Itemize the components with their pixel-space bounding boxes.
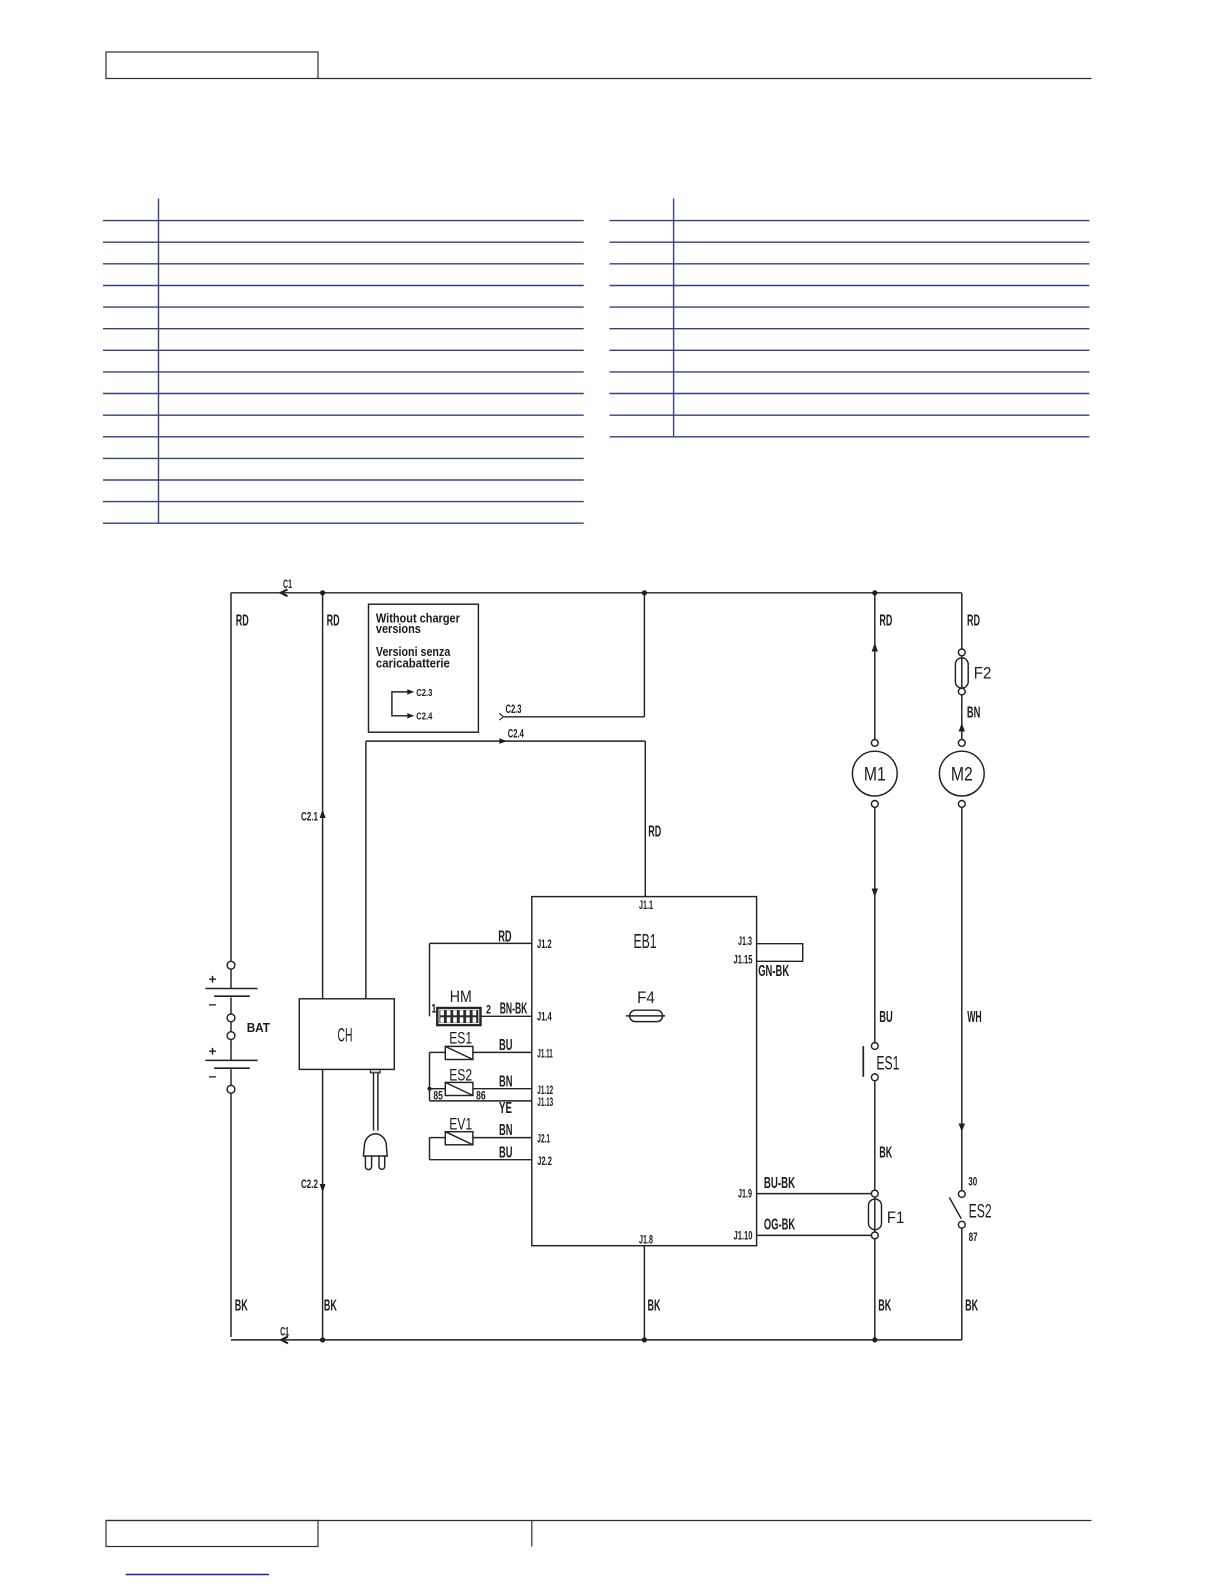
svg-text:C2.3: C2.3 xyxy=(416,687,432,699)
svg-text:M2: M2 xyxy=(951,764,973,785)
note box: Without charger versions xyxy=(369,604,479,732)
svg-text:C2.4: C2.4 xyxy=(508,726,524,740)
svg-text:BU: BU xyxy=(499,1144,513,1161)
node C1 (bottom) xyxy=(280,1324,289,1343)
parts table left xyxy=(103,199,584,524)
svg-text:F4: F4 xyxy=(637,989,655,1007)
wire: F1 to ground bus (BK) xyxy=(875,1239,892,1340)
wire: J1.3/J1.15 jumper loop (GN-BK) xyxy=(757,944,803,980)
parts table right xyxy=(610,199,1090,437)
wire: ES1 to F1 (BK) xyxy=(875,1081,893,1191)
wire: J1.10 OG-BK to F1 xyxy=(757,1217,872,1236)
wire: M1 supply RD xyxy=(872,593,893,740)
wire: M2 supply RD xyxy=(962,593,980,649)
header rule xyxy=(318,78,1092,80)
svg-text:1: 1 xyxy=(431,1002,436,1016)
svg-text:HM: HM xyxy=(450,988,472,1006)
svg-text:BK: BK xyxy=(879,1145,892,1162)
junction: motor M1 branch / top bus xyxy=(872,590,877,595)
svg-text:C2.1: C2.1 xyxy=(301,809,318,823)
wire: ES2 coil to J1.12 (BN) xyxy=(473,1073,532,1090)
svg-text:M1: M1 xyxy=(864,764,886,785)
svg-text:OG-BK: OG-BK xyxy=(764,1217,796,1234)
junction: charger feed / top bus xyxy=(320,590,325,595)
svg-text:J1.1: J1.1 xyxy=(639,900,653,912)
svg-text:J1.8: J1.8 xyxy=(639,1234,653,1246)
wire: HM pin 2 to J1.4 (BN-BK) xyxy=(481,1000,532,1017)
wire: EV1 to J2.1 (BN) xyxy=(473,1122,532,1139)
svg-text:–: – xyxy=(209,997,217,1012)
wire: bottom ground bus xyxy=(231,1339,962,1341)
svg-text:versions: versions xyxy=(376,621,421,636)
svg-text:BU: BU xyxy=(879,1009,893,1026)
svg-text:caricabatterie: caricabatterie xyxy=(376,655,450,670)
wire: F2 to M2 (BN) xyxy=(959,695,981,740)
svg-text:J2.1: J2.1 xyxy=(537,1133,550,1145)
svg-text:WH: WH xyxy=(967,1009,982,1026)
svg-text:J1.11: J1.11 xyxy=(537,1049,553,1061)
svg-text:BN-BK: BN-BK xyxy=(500,1000,528,1017)
wire: top supply bus xyxy=(231,592,962,594)
node C1 (top) xyxy=(281,577,292,596)
fuse F1 xyxy=(869,1190,905,1239)
svg-text:GN-BK: GN-BK xyxy=(758,963,789,980)
svg-text:BK: BK xyxy=(324,1297,337,1314)
relay coil ES2 xyxy=(433,1066,485,1102)
svg-text:J1.4: J1.4 xyxy=(537,1012,552,1024)
svg-text:BN: BN xyxy=(967,705,981,722)
svg-text:ES2: ES2 xyxy=(449,1066,472,1084)
controller EB1 xyxy=(532,897,757,1247)
svg-text:J1.13: J1.13 xyxy=(537,1097,553,1109)
motor M2 xyxy=(939,740,984,808)
junction: EB1 return / ground bus xyxy=(642,1337,647,1342)
wire: M1 to switch ES1 (BU) xyxy=(872,807,893,1042)
power plug (mains cord) xyxy=(363,1069,387,1169)
wire: J1.9 BU-BK to F1 xyxy=(757,1175,872,1194)
svg-text:J1.2: J1.2 xyxy=(537,939,552,951)
svg-text:C2.2: C2.2 xyxy=(301,1177,318,1191)
svg-text:BK: BK xyxy=(235,1297,248,1314)
junction: F1 return / ground bus xyxy=(872,1337,877,1342)
svg-text:30: 30 xyxy=(968,1174,977,1188)
svg-text:EB1: EB1 xyxy=(633,931,656,953)
wire: ES1 coil left to common xyxy=(430,1051,446,1053)
charger CH xyxy=(299,999,394,1070)
svg-text:RD: RD xyxy=(967,612,980,629)
svg-text:BK: BK xyxy=(965,1297,978,1314)
svg-text:2: 2 xyxy=(486,1003,491,1017)
wire: link C2.4 from charger to EB1 J1.1 (RD) xyxy=(366,726,661,998)
solenoid valve EV1 xyxy=(445,1115,473,1145)
footer link underline xyxy=(126,1574,269,1576)
svg-text:BU: BU xyxy=(499,1037,513,1054)
hour meter HM xyxy=(431,988,491,1026)
wire: ES1/ES2 common to J1.13 (YE) xyxy=(427,1052,531,1117)
svg-text:ES1: ES1 xyxy=(449,1030,472,1048)
svg-text:YE: YE xyxy=(499,1100,512,1117)
wire: charger feed C2.1 RD xyxy=(301,593,340,999)
wire: J1.2 RD to HM pin 1 xyxy=(430,929,532,1017)
wire: M2 to switch ES2 (WH) xyxy=(959,807,982,1190)
header logo box xyxy=(106,52,318,79)
switch ES2 (contact) xyxy=(949,1191,991,1245)
svg-text:BAT: BAT xyxy=(247,1020,270,1035)
svg-text:J2.2: J2.2 xyxy=(537,1156,552,1168)
svg-text:ES2: ES2 xyxy=(969,1202,992,1223)
svg-text:+: + xyxy=(209,972,217,987)
svg-text:BN: BN xyxy=(499,1122,513,1139)
svg-text:RD: RD xyxy=(879,612,892,629)
wire: battery negative to ground bus BK xyxy=(231,1093,248,1337)
svg-text:C2.3: C2.3 xyxy=(506,702,522,716)
svg-text:BU-BK: BU-BK xyxy=(764,1175,796,1192)
svg-text:RD: RD xyxy=(498,929,511,946)
fuse F4 (inside EB1) xyxy=(626,989,665,1022)
svg-text:C1: C1 xyxy=(283,577,292,591)
battery BAT xyxy=(205,961,270,1093)
switch ES1 (contact) xyxy=(863,1043,899,1081)
svg-text:RD: RD xyxy=(648,823,661,840)
footer rule xyxy=(106,1520,1092,1522)
svg-text:–: – xyxy=(209,1069,217,1084)
svg-text:87: 87 xyxy=(969,1230,978,1244)
svg-text:+: + xyxy=(209,1044,217,1059)
junction: C2.3 riser / top bus xyxy=(642,590,647,595)
footer divider tick xyxy=(531,1521,533,1547)
svg-text:J1.10: J1.10 xyxy=(734,1231,753,1243)
note elbow to C2.3 xyxy=(392,692,410,716)
wire: battery positive feed RD xyxy=(231,593,249,962)
svg-text:RD: RD xyxy=(327,612,340,629)
svg-text:BK: BK xyxy=(878,1297,891,1314)
wire: EV1 return to J2.2 (BU) xyxy=(430,1138,532,1162)
wire: ES2 to ground bus (BK) xyxy=(962,1228,979,1340)
svg-text:RD: RD xyxy=(236,612,249,629)
note elbow to C2.4 xyxy=(407,713,414,718)
svg-text:J1.15: J1.15 xyxy=(734,955,753,967)
svg-text:ES1: ES1 xyxy=(876,1054,899,1075)
wire: charger output C2.2 BK xyxy=(301,1069,337,1340)
svg-text:F2: F2 xyxy=(974,665,992,683)
svg-text:J1.3: J1.3 xyxy=(738,936,752,948)
fuse F2 xyxy=(955,649,991,695)
wire: ES1 coil to J1.11 (BU) xyxy=(473,1037,532,1054)
svg-text:CH: CH xyxy=(338,1025,353,1046)
svg-text:C2.4: C2.4 xyxy=(416,711,432,723)
junction: charger return / ground bus xyxy=(320,1337,325,1342)
svg-text:BN: BN xyxy=(499,1073,513,1090)
motor M1 xyxy=(852,740,897,808)
svg-text:BK: BK xyxy=(648,1297,661,1314)
svg-text:J1.12: J1.12 xyxy=(537,1085,553,1097)
relay coil ES1 xyxy=(445,1030,473,1060)
footer box xyxy=(106,1521,318,1547)
wire: EB1 J1.8 to ground bus (BK) xyxy=(644,1246,661,1340)
svg-text:F1: F1 xyxy=(887,1209,905,1227)
svg-text:EV1: EV1 xyxy=(449,1115,472,1133)
svg-text:C1: C1 xyxy=(280,1324,289,1338)
wire: link C2.3 to top bus xyxy=(499,593,644,720)
svg-text:J1.9: J1.9 xyxy=(738,1189,752,1201)
